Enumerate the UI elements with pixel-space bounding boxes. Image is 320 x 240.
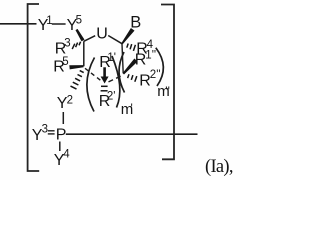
paren left-inner open <box>87 58 95 112</box>
svg-text:2': 2' <box>107 90 116 102</box>
paren right-inner close <box>156 48 164 86</box>
dashed ring bond bottomC-rightC <box>109 75 123 82</box>
bracket left <box>28 4 40 171</box>
svg-text:'': '' <box>165 84 170 98</box>
wedge Y5-C4' <box>76 29 85 42</box>
wedge C3'-R5 <box>69 65 83 69</box>
wire backbone-right from P <box>66 133 198 135</box>
wedge C1'-B <box>121 28 134 44</box>
hashed wedge rightC-R2'' <box>128 74 137 81</box>
svg-text:3: 3 <box>42 124 48 136</box>
bond Y1-Y5 <box>52 23 66 25</box>
svg-text:2'': 2'' <box>150 69 161 81</box>
wire backbone-left <box>0 23 37 25</box>
hashed wedge C4'-R3 <box>72 42 80 49</box>
double bond Y3=P <box>48 131 55 134</box>
hashed wedge C3'-Y2 <box>71 71 84 90</box>
paren right-inner open <box>119 52 124 93</box>
ring bond C1'-rightC <box>122 44 123 73</box>
bold arrow R1'-bottomC <box>103 67 106 77</box>
hashed wedge bottomC-R2' <box>101 86 108 91</box>
bond Y2-P <box>62 112 64 124</box>
hashed wedge C1'-R4 <box>127 44 136 51</box>
svg-text:5: 5 <box>76 15 82 27</box>
ring bond C4'-U <box>84 36 95 42</box>
wedge rightC-R1'' <box>123 59 138 75</box>
svg-text:1: 1 <box>46 15 52 27</box>
svg-text:2: 2 <box>67 94 73 106</box>
svg-text:4: 4 <box>63 149 70 161</box>
svg-text:': ' <box>131 101 133 115</box>
svg-text:U: U <box>96 25 108 42</box>
bracket right <box>161 5 174 160</box>
svg-text:5: 5 <box>62 56 68 68</box>
svg-text:3: 3 <box>64 37 70 49</box>
dashed ring bond C3'-bottomC <box>85 68 102 81</box>
ring bond U-C1' <box>108 36 122 44</box>
svg-text:P: P <box>56 127 67 144</box>
bond P-Y4 <box>59 142 61 152</box>
svg-text:B: B <box>130 13 141 31</box>
svg-text:1'': 1'' <box>145 49 156 61</box>
paren left-inner close <box>112 56 120 108</box>
ring bond C4'-C3' <box>83 41 85 66</box>
svg-text:(Ia),: (Ia), <box>205 157 233 177</box>
